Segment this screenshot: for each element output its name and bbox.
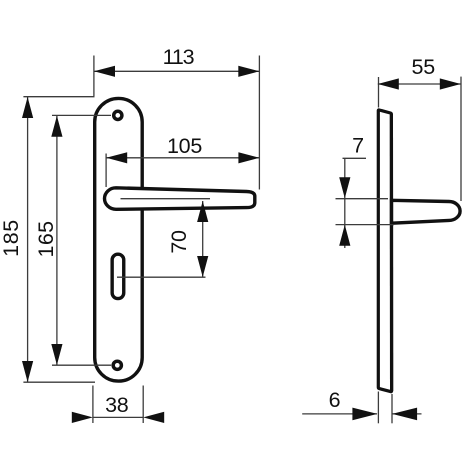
svg-text:55: 55 <box>412 55 436 79</box>
dimension 38 line <box>93 416 143 418</box>
dimension 105 arrow right <box>238 152 259 163</box>
dimension 105 arrow left <box>106 152 127 163</box>
lever handle front view <box>105 188 255 210</box>
dimension 70 line <box>202 201 204 277</box>
dimension 55 extension line right <box>460 77 462 201</box>
svg-text:185: 185 <box>0 219 23 257</box>
dimension 113 line <box>94 70 259 72</box>
lever inner highlight line <box>121 198 211 200</box>
dimension 165 extension line bottom <box>52 364 111 366</box>
dimension 185 extension line bottom <box>23 381 95 383</box>
dimension 38 extension line left <box>92 386 94 424</box>
dimension 113 arrow right <box>238 66 259 77</box>
dimension 185 extension line top <box>23 96 94 98</box>
side strip right edge redraw <box>390 114 393 391</box>
dimension 6 extension line right <box>391 394 393 423</box>
dimension 7 shoulder line <box>343 157 367 159</box>
dimension 38 extension line right <box>142 386 144 424</box>
keyhole <box>112 254 124 298</box>
dimension 55 arrow right <box>440 78 461 89</box>
svg-text:38: 38 <box>105 393 129 417</box>
svg-text:113: 113 <box>163 45 195 69</box>
dimension 70 arrow top <box>197 201 208 222</box>
dimension 55 line <box>378 83 461 85</box>
dimension 7 bottom measure line <box>336 224 395 226</box>
svg-text:6: 6 <box>329 388 341 412</box>
dimension 105 extension line left <box>105 154 107 188</box>
dimension 113/105 shared extension line right <box>258 56 260 190</box>
svg-text:105: 105 <box>167 134 202 158</box>
dimension 55 extension line left <box>378 77 380 108</box>
svg-text:7: 7 <box>352 134 364 158</box>
dimension 7 arrow down <box>339 177 350 198</box>
svg-text:70: 70 <box>167 230 191 254</box>
top screw hole <box>114 111 122 119</box>
dimension 6 extension line left <box>377 392 379 424</box>
dimension 105 line <box>106 157 259 159</box>
dimension 6 line right tail <box>393 413 422 415</box>
front plate <box>95 98 143 381</box>
dimension 55 arrow left <box>378 78 399 89</box>
dimension 113 extension line left <box>93 56 95 97</box>
side plate strip <box>378 110 391 392</box>
dimension 70 arrow bottom <box>197 256 208 277</box>
dimension 7 vertical line <box>344 158 346 248</box>
dimension 6 line left tail <box>302 413 377 415</box>
dimension 6 arrow left <box>352 408 377 421</box>
dimension 165 extension line top <box>52 114 111 116</box>
bottom screw hole <box>113 361 121 369</box>
dimension 185 line <box>27 97 29 382</box>
dimension 165 arrow bottom <box>51 344 62 365</box>
dimension 165 line <box>56 116 58 365</box>
dimension 165 arrow top <box>51 116 62 137</box>
lever handle side view <box>392 200 461 223</box>
dimension 7 top measure line <box>336 198 389 200</box>
dimension 113 arrow left <box>94 66 115 77</box>
dimension 70 keyhole centre line <box>117 276 206 278</box>
svg-text:165: 165 <box>34 220 58 257</box>
dimension 38 arrow right <box>143 412 164 423</box>
dimension 6 arrow right <box>392 408 417 421</box>
dimension 38 arrow left <box>72 412 93 423</box>
dimension 185 arrow bottom <box>22 361 33 382</box>
dimension 185 arrow top <box>22 97 33 118</box>
dimension 7 arrow up <box>339 225 350 246</box>
